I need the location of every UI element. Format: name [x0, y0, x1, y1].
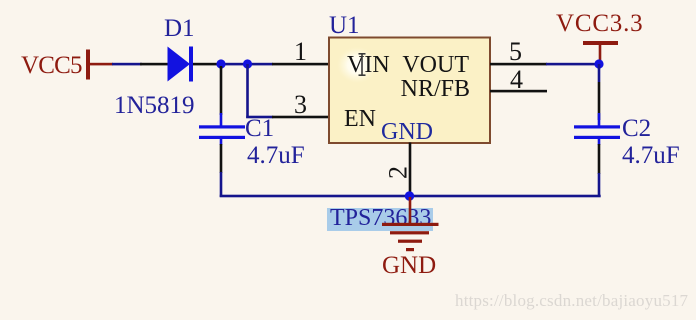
- power port VCC5: [21, 50, 113, 80]
- svg-text:4: 4: [510, 65, 523, 94]
- pin 2 of U1: [384, 143, 413, 195]
- svg-text:4.7uF: 4.7uF: [622, 142, 680, 169]
- pin 5 of U1: [490, 37, 547, 66]
- pin 3 of U1: [272, 90, 329, 119]
- svg-text:VCC3.3: VCC3.3: [556, 10, 643, 37]
- svg-text:GND: GND: [381, 119, 433, 145]
- svg-text:VOUT: VOUT: [402, 52, 469, 78]
- junction node at C1: [216, 59, 225, 68]
- svg-text:D1: D1: [164, 15, 195, 42]
- op-amp U1 TPS73633 body: [329, 12, 490, 143]
- svg-text:5: 5: [509, 37, 522, 66]
- cursor halo over VIN: [336, 46, 378, 84]
- power port VCC3.3: [556, 10, 643, 64]
- selected text TPS73633: [327, 205, 433, 231]
- pin 1 of U1: [272, 37, 329, 66]
- capacitor C1: [199, 66, 305, 173]
- ground rail wire: [220, 195, 601, 198]
- ground power symbol: [382, 197, 439, 251]
- wire EN branch vertical: [246, 64, 249, 118]
- svg-text:TPS73633: TPS73633: [330, 205, 431, 231]
- svg-text:3: 3: [294, 90, 307, 119]
- junction node at VCC3.3: [594, 59, 603, 68]
- text cursor I-beam: [359, 53, 366, 76]
- wire EN branch horizontal: [246, 116, 273, 119]
- junction node at EN branch: [243, 59, 252, 68]
- svg-text:VCC5: VCC5: [21, 52, 82, 79]
- svg-text:C2: C2: [622, 115, 651, 142]
- svg-text:NR/FB: NR/FB: [401, 76, 470, 102]
- svg-text:VIN: VIN: [347, 52, 390, 78]
- svg-text:1: 1: [294, 37, 307, 66]
- svg-text:EN: EN: [344, 106, 376, 132]
- svg-text:U1: U1: [329, 12, 360, 39]
- svg-text:1N5819: 1N5819: [114, 92, 195, 119]
- svg-text:2: 2: [384, 166, 413, 179]
- diode D1 1N5819: [114, 15, 220, 119]
- wire C1 to ground rail: [220, 172, 223, 197]
- wire C2 to ground rail: [598, 173, 601, 197]
- svg-text:4.7uF: 4.7uF: [247, 142, 305, 169]
- capacitor C2: [574, 64, 680, 174]
- wire D1 to U1 pin 1: [218, 63, 273, 66]
- svg-text:C1: C1: [245, 115, 274, 142]
- wire pin5 to VCC3.3: [546, 63, 600, 66]
- svg-text:https://blog.csdn.net/bajiaoyu: https://blog.csdn.net/bajiaoyu517: [455, 291, 689, 310]
- svg-text:GND: GND: [382, 252, 436, 279]
- junction node at ground rail: [405, 191, 414, 200]
- wire VCC5 to D1 anode: [112, 63, 142, 66]
- pin 4 of U1 NR/FB: [490, 65, 547, 94]
